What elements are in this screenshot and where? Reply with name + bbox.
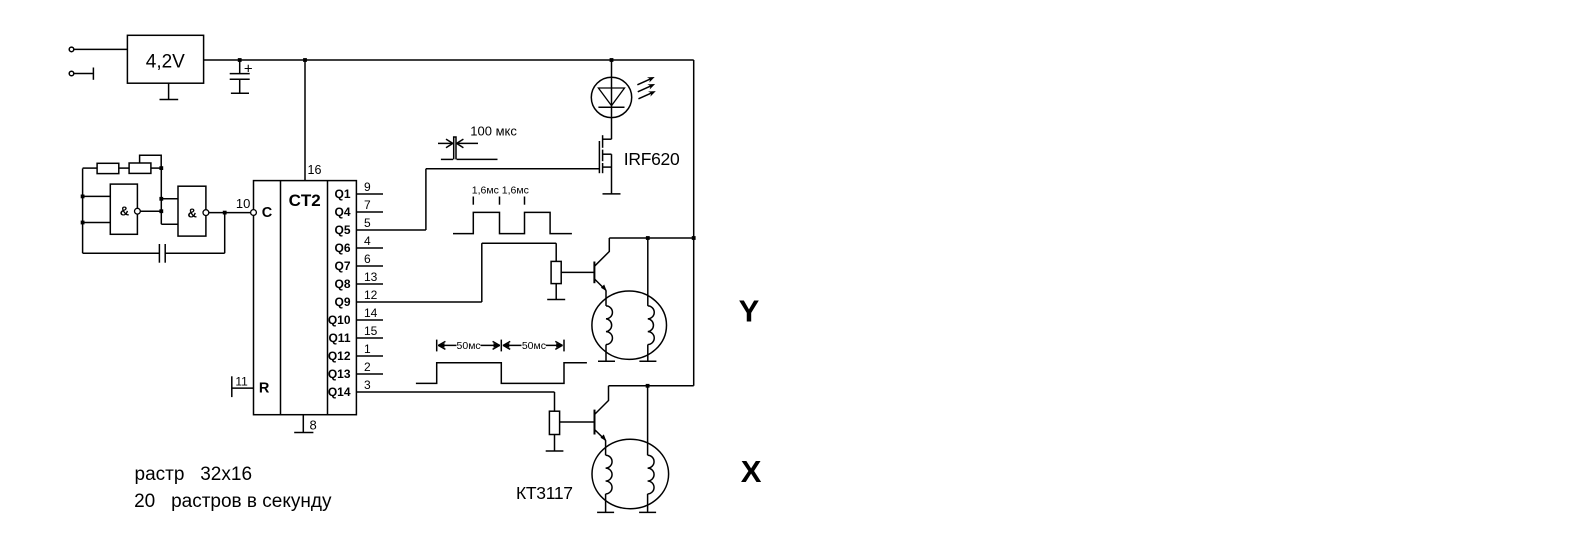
wire Q-Y emitter down bbox=[605, 290, 607, 306]
svg-text:6: 6 bbox=[364, 252, 371, 266]
svg-text:10: 10 bbox=[236, 196, 250, 211]
NAND gate 2 bbox=[178, 186, 209, 236]
pin Q6 bbox=[334, 234, 383, 255]
pin Q14 bbox=[328, 378, 555, 399]
wire right rail vertical bbox=[693, 60, 695, 386]
svg-text:15: 15 bbox=[364, 324, 378, 338]
waveform 50ms bbox=[416, 363, 587, 384]
ground (supply) bbox=[160, 83, 179, 99]
svg-text:Q10: Q10 bbox=[328, 313, 351, 327]
ground (R4) bbox=[546, 450, 564, 452]
wire Q9 right bbox=[482, 242, 556, 244]
wire R2 to node bbox=[151, 167, 161, 169]
wire gate1 input lower bbox=[83, 222, 111, 224]
tick dash 2 bbox=[499, 197, 501, 205]
wire Q5 to MOSFET gate bbox=[426, 168, 600, 170]
wire R3 to ground bbox=[555, 284, 557, 300]
wire Q9 down to R3 bbox=[555, 243, 557, 261]
svg-text:9: 9 bbox=[364, 180, 371, 194]
ground (X left winding) bbox=[597, 511, 614, 513]
terminal input 1 bbox=[69, 47, 74, 52]
wire feedback bottom right bbox=[165, 252, 225, 254]
svg-text:5: 5 bbox=[364, 216, 371, 230]
pin Q1 bbox=[334, 180, 383, 201]
node gate2 out bbox=[223, 211, 227, 215]
svg-text:Q11: Q11 bbox=[328, 331, 350, 345]
wire gate2 output bbox=[209, 212, 225, 214]
wire Q5 up bbox=[425, 169, 427, 230]
svg-text:Q5: Q5 bbox=[334, 223, 350, 237]
ground (C1) bbox=[231, 92, 249, 94]
pin Q4 bbox=[334, 198, 383, 219]
resistor R4 (X base) bbox=[549, 411, 559, 434]
inductor X right winding bbox=[648, 386, 654, 513]
wire R4 to ground bbox=[554, 435, 556, 452]
pin Q9 bbox=[334, 288, 481, 309]
oscillator left vertical wire bbox=[82, 168, 84, 253]
svg-text:13: 13 bbox=[364, 270, 378, 284]
svg-text:&: & bbox=[120, 203, 129, 218]
wire Q14 down to R4 bbox=[554, 392, 556, 411]
power supply 4,2V bbox=[127, 35, 203, 83]
node rail-capacitor bbox=[238, 58, 242, 62]
label 50ms dimension bbox=[437, 340, 564, 352]
svg-text:+: + bbox=[244, 61, 253, 78]
ground (Y left winding) bbox=[598, 360, 615, 362]
motor X frame bbox=[592, 439, 669, 508]
wire node to gate2 inputs vertical bbox=[160, 168, 162, 224]
waveform 1,6ms pulses bbox=[453, 212, 572, 233]
terminal input 2 bbox=[69, 71, 74, 76]
svg-text:Q9: Q9 bbox=[334, 295, 350, 309]
pin Q7 bbox=[334, 252, 383, 273]
counter IC CT2 bbox=[254, 181, 357, 415]
svg-text:14: 14 bbox=[364, 306, 378, 320]
pin Q12 bbox=[328, 342, 383, 363]
svg-text:Q12: Q12 bbox=[328, 349, 351, 363]
svg-text:1: 1 bbox=[364, 342, 371, 356]
wire rail to pin16 bbox=[305, 60, 321, 181]
wire top rail bbox=[204, 59, 694, 61]
node collector-rail bbox=[692, 236, 696, 240]
resistor R3 (Y base) bbox=[551, 261, 561, 283]
svg-text:Q4: Q4 bbox=[334, 205, 350, 219]
node Y coil feed bbox=[646, 236, 650, 240]
svg-text:IRF620: IRF620 bbox=[624, 149, 680, 169]
svg-text:Q6: Q6 bbox=[334, 241, 350, 255]
wire feedback bottom left bbox=[83, 252, 160, 254]
inductor X left winding bbox=[606, 455, 612, 512]
svg-text:16: 16 bbox=[308, 163, 322, 177]
svg-text:CT2: CT2 bbox=[289, 191, 321, 210]
wire Q-X emitter down bbox=[605, 440, 607, 455]
LED D1 bbox=[591, 77, 631, 117]
wire rail to LED bbox=[611, 60, 613, 139]
wire Q-Y collector rail bbox=[609, 237, 693, 239]
resistor R1 bbox=[97, 163, 119, 173]
node rail-LED bbox=[610, 58, 614, 62]
wire oscillator to C pin bbox=[225, 196, 251, 213]
ground (X right winding) bbox=[639, 511, 656, 513]
inductor Y right winding bbox=[648, 238, 654, 361]
node rail-CT2 bbox=[303, 58, 307, 62]
wire gate2 input lower bbox=[161, 223, 178, 225]
svg-text:100 мкс: 100 мкс bbox=[470, 124, 517, 139]
NAND gate 1 bbox=[110, 184, 140, 234]
svg-text:2: 2 bbox=[364, 360, 371, 374]
resistor R2 bbox=[129, 163, 151, 173]
svg-text:Q1: Q1 bbox=[334, 187, 350, 201]
wire gate2out down bbox=[224, 213, 226, 254]
wire Q9 up bbox=[481, 243, 483, 302]
svg-text:7: 7 bbox=[364, 198, 371, 212]
svg-text:растр 32x16: растр 32x16 bbox=[135, 464, 253, 485]
wire terminal2 stub bbox=[74, 68, 93, 80]
svg-text:1,6мс 1,6мс: 1,6мс 1,6мс bbox=[472, 185, 529, 197]
capacitor C1 polarized bbox=[230, 60, 253, 93]
ground (Y right winding) bbox=[639, 360, 656, 362]
LED light arrows bbox=[636, 74, 657, 101]
inductor Y left winding bbox=[606, 306, 612, 361]
svg-text:Q8: Q8 bbox=[334, 277, 350, 291]
node R2 right bbox=[159, 166, 163, 170]
tick dash 1 bbox=[472, 197, 474, 205]
ground (MOSFET source) bbox=[603, 193, 621, 195]
capacitor C2 bbox=[159, 244, 165, 263]
wire loop over R2 bbox=[140, 155, 162, 168]
wire Q-X collector rail bbox=[609, 385, 694, 387]
pin Q10 bbox=[328, 306, 383, 327]
node gate1 upper input bbox=[81, 195, 85, 199]
pin Q13 bbox=[328, 360, 383, 381]
svg-text:R: R bbox=[259, 381, 270, 397]
svg-text:4: 4 bbox=[364, 234, 371, 248]
svg-text:КТ3117: КТ3117 bbox=[516, 483, 573, 503]
svg-text:Y: Y bbox=[739, 294, 760, 329]
svg-text:50мс: 50мс bbox=[522, 340, 546, 352]
node gate2 upper input bbox=[159, 197, 163, 201]
node X coil feed bbox=[646, 384, 650, 388]
svg-text:Q14: Q14 bbox=[328, 385, 351, 399]
svg-text:X: X bbox=[741, 454, 762, 489]
pin 8 ground bbox=[294, 415, 317, 433]
transistor Q-Y bbox=[594, 238, 609, 291]
motor Y frame bbox=[592, 291, 667, 359]
pulse spike symbol bbox=[441, 137, 498, 159]
svg-text:4,2V: 4,2V bbox=[146, 51, 185, 72]
pin Q5 bbox=[334, 216, 425, 237]
wire gate2 input upper bbox=[161, 198, 178, 200]
wire to R1 bbox=[83, 167, 98, 169]
spike width arrows bbox=[438, 139, 478, 148]
pin Q8 bbox=[334, 270, 383, 291]
node gate1 out bbox=[159, 209, 163, 213]
node gate1 lower input bbox=[81, 221, 85, 225]
wire gate1 output bbox=[140, 210, 161, 212]
svg-text:12: 12 bbox=[364, 288, 378, 302]
svg-text:C: C bbox=[262, 205, 273, 221]
wire terminal1 to supply bbox=[74, 48, 127, 50]
pin R input bbox=[232, 375, 270, 398]
svg-text:Q7: Q7 bbox=[334, 259, 350, 273]
tick dash 3 bbox=[524, 197, 526, 205]
svg-text:11: 11 bbox=[235, 375, 248, 389]
svg-text:20 растров в секунду: 20 растров в секунду bbox=[134, 491, 332, 512]
svg-text:&: & bbox=[188, 205, 197, 220]
wire R1 to R2 bbox=[119, 167, 129, 169]
ground (R3) bbox=[547, 299, 565, 301]
transistor Q-X bbox=[595, 386, 609, 441]
pin Q11 bbox=[328, 324, 383, 345]
wire R3 to Q-Y base bbox=[561, 271, 594, 273]
svg-text:3: 3 bbox=[364, 378, 371, 392]
wire gate1 input upper bbox=[83, 195, 111, 197]
MOSFET U2 IRF620 bbox=[599, 135, 611, 194]
svg-text:8: 8 bbox=[310, 418, 317, 433]
svg-text:50мс: 50мс bbox=[457, 340, 481, 352]
pin C input bubble bbox=[251, 205, 273, 221]
svg-text:Q13: Q13 bbox=[328, 367, 351, 381]
wire R4 to Q-X base bbox=[560, 421, 594, 423]
